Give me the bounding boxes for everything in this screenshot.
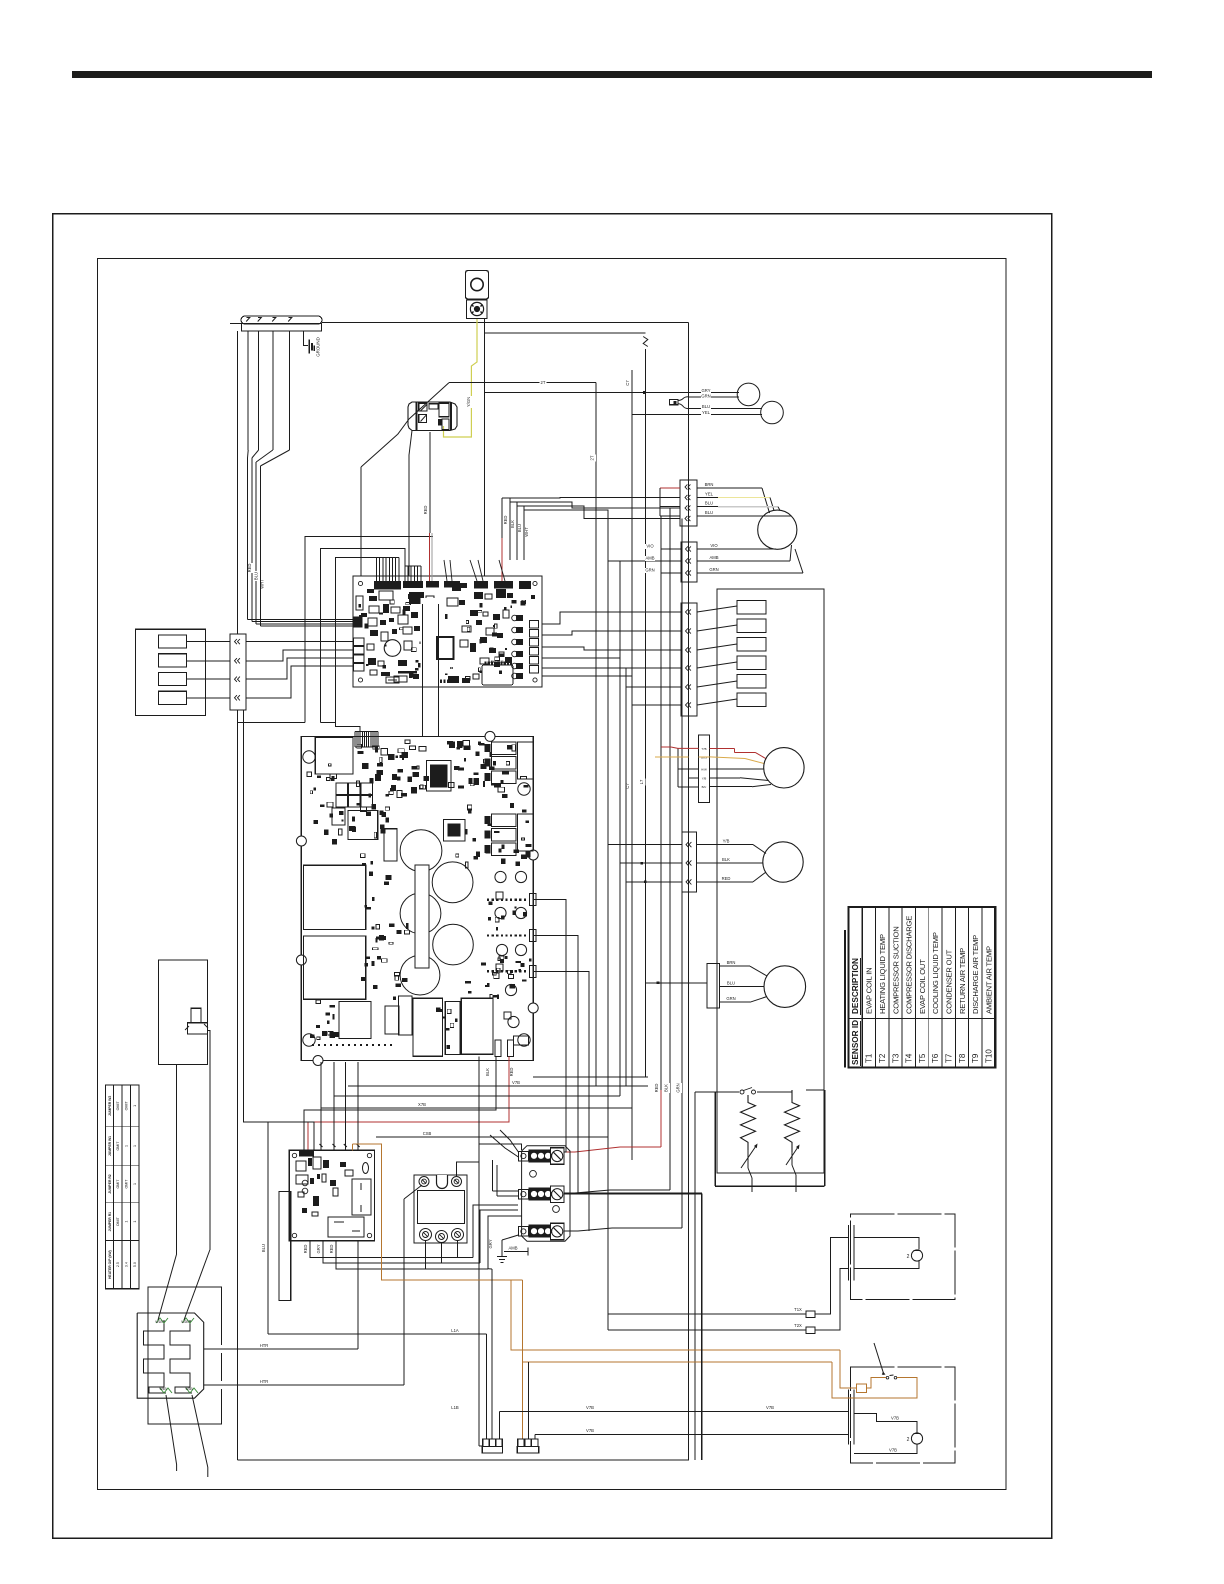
right mid circles [495,871,506,882]
svg-text:RED: RED [329,1245,334,1254]
svg-text:5.0: 5.0 [133,1262,137,1267]
heater resistor R2 [785,1090,800,1152]
solid state relay [414,1175,467,1243]
svg-text:H/W: H/W [701,767,707,771]
evap fan M3 [763,842,803,882]
board buzzer [384,640,401,657]
sensor plug [669,399,678,404]
wire heater feed [695,1091,715,1093]
svg-text:Y/GN: Y/GN [466,397,471,407]
probe [191,1008,201,1023]
trunk wire C7 [631,370,633,1160]
svg-text:V7B: V7B [891,1416,899,1421]
bottom power modules [339,1001,371,1038]
probe box [159,960,208,1065]
svg-text:RETURN AIR TEMP: RETURN AIR TEMP [958,948,967,1014]
svg-text:L1B: L1B [451,1405,459,1410]
svg-text:BLU: BLU [517,524,522,532]
relay board oval [363,1163,369,1174]
wire bus drop 1 to plug strip [237,331,239,634]
svg-text:JUMPER W2: JUMPER W2 [108,1096,112,1116]
trunk wire GRN [681,519,683,1229]
svg-text:DISCHARGE AIR TEMP: DISCHARGE AIR TEMP [971,935,980,1014]
wires top right to strips [502,497,680,500]
svg-text:BLU: BLU [705,501,713,506]
board mounting hole [303,751,315,763]
wire relay diagonal to 2T [409,383,449,419]
svg-text:RED: RED [247,564,252,573]
wire 2T trunk vertical [595,383,597,1087]
heater element outline [137,1313,204,1398]
relay panel box [717,589,824,1173]
ground near tb [501,1240,503,1256]
connector contact 4 [158,691,186,704]
wires fan plug to motor [710,768,764,770]
plug contact [235,658,237,663]
svg-text:BRN: BRN [705,482,714,487]
plug contact [235,639,237,644]
wires ssr bottom [425,1241,427,1269]
wire amb [533,1076,648,1078]
wire bus drop 4 [272,331,274,450]
bus terminal tick [258,318,262,322]
svg-text:VIO: VIO [710,543,718,548]
box1 connector [847,1225,849,1281]
svg-text:VIO: VIO [646,544,654,549]
amb wire [504,1251,528,1253]
svg-text:T7B: T7B [701,747,706,751]
labels bottom [450,1328,460,1333]
svg-text:OMIT: OMIT [124,1179,128,1189]
low voltage connector box [135,629,205,715]
heavy supply wire [564,1192,702,1194]
capacitor C5 [400,955,440,995]
outer border [53,214,1052,1539]
aux motor M4 [764,966,806,1008]
red sensor wire [660,1090,662,1147]
aux plug X5 [707,963,719,1008]
svg-text:GROUND: GROUND [316,337,321,357]
svg-text:T10: T10 [984,1049,993,1063]
plug contact [235,695,237,700]
terminal block TB3 [518,1227,528,1237]
svg-text:AMB: AMB [508,1246,517,1251]
svg-text:EVAP COIL IN: EVAP COIL IN [865,968,874,1014]
evap fan plug X4 [682,832,696,892]
wire yel [632,413,762,415]
capacitor C3 [400,893,441,934]
right relay footprints [492,742,517,755]
power board transformer [315,738,353,775]
box2 pressure switch [874,1343,884,1375]
svg-text:CSB: CSB [423,1131,432,1136]
svg-text:2T: 2T [541,380,546,385]
ribbon bracket 2 [320,549,405,723]
svg-text:AMB: AMB [709,555,718,560]
svg-text:T3: T3 [891,1053,900,1063]
bus terminal tick [272,318,276,322]
wires board bottom blk red [304,1057,496,1151]
svg-text:OMIT: OMIT [124,1101,128,1111]
compressor M1 [758,510,797,549]
svg-text:GRN: GRN [726,996,735,1001]
wire to sensor T10 [688,408,762,410]
svg-text:WHT: WHT [260,579,265,589]
power board U2 [301,736,533,1060]
wires board right to relay strip [542,612,681,624]
svg-text:X7B: X7B [418,1102,426,1107]
wires to evap fan plug [608,844,682,846]
svg-text:HTR: HTR [260,1379,269,1384]
orange wire to plug [522,1280,524,1439]
wires into tb left [500,1130,518,1152]
wire ssr left screw to heater [404,1185,422,1199]
terminal block TB2 [518,1190,528,1200]
board left connector strip [354,638,365,646]
board sd card [482,665,513,685]
svg-text:C7: C7 [625,380,630,386]
relay strip X2 [681,603,697,716]
driver ic [444,820,466,842]
wires runs up to terminals [473,1205,518,1258]
sensor T10 bulb [761,401,784,424]
high-pressure switch 2T body [466,271,489,300]
svg-text:GRY: GRY [702,388,711,393]
board ribbon header J1 [374,581,401,590]
svg-text:T2: T2 [878,1053,887,1063]
wires to box2 [499,1410,848,1412]
orange wire to fan plug [655,756,688,758]
orange control wire [353,1144,523,1280]
wires heater to relays [204,1348,358,1350]
red wire to compressor plug [660,487,680,489]
wires relay board bottom [310,1241,473,1258]
bus bar strip [415,865,429,968]
svg-text:JUMPER R2: JUMPER R2 [108,1174,112,1194]
tall cap rect [384,829,397,861]
wires heater bottom tails [166,1395,177,1471]
heatsink block 1 [304,865,366,929]
terminal mount plate [522,1146,570,1242]
board edge notches [296,836,306,846]
yellow earth wire Y/GN [444,319,478,438]
wires to box1 [608,1313,806,1315]
svg-text:T6: T6 [931,1053,940,1063]
board mounting hole [518,783,530,795]
svg-text:HEATER O/P (kW): HEATER O/P (kW) [108,1250,112,1279]
heater resistor R1 [741,1095,756,1150]
terminal block TB1 [518,1151,528,1161]
box2 fan motor [854,1413,917,1432]
wire bus drop 2 [247,331,249,450]
svg-text:V7B: V7B [766,1405,774,1410]
wire ssr right screw [457,1144,522,1176]
svg-text:RED: RED [423,506,428,515]
arrow R1 [741,1146,756,1168]
orange component [857,1384,867,1392]
capacitor C4 [433,924,474,965]
igbt module [430,765,448,788]
board right edge connector strip [530,621,539,629]
compressor plug bracket [659,488,661,516]
trunk wire C5 [645,349,647,1077]
board extra scatter [384,607,388,609]
box2 connector [847,1390,849,1445]
wires into relay board top [320,1062,322,1150]
svg-text:AMB: AMB [645,556,654,561]
relay board relay 1 [352,1179,371,1215]
wire 2T run [449,382,596,384]
svg-text:Y/B: Y/B [723,839,730,844]
svg-text:COMPRESSOR DISCHARGE: COMPRESSOR DISCHARGE [905,916,914,1014]
relay board relay 2 [328,1217,364,1237]
ribbon bracket 1 [238,722,305,724]
trunk wire [619,561,621,1096]
svg-text:RED: RED [509,1068,514,1077]
svg-text:JUMPER W1: JUMPER W1 [108,1136,112,1156]
board left edge connector [354,617,363,628]
svg-text:COMPRESSOR SUCTION: COMPRESSOR SUCTION [891,926,900,1014]
sensor id table [849,907,996,1068]
arrow R2 [786,1147,798,1165]
svg-text:COOLING LIQUID TEMP: COOLING LIQUID TEMP [931,932,940,1014]
jumper table [106,1085,139,1289]
svg-text:OMIT: OMIT [116,1216,120,1226]
svg-text:3.4: 3.4 [124,1262,128,1267]
board header J6 with red wire [494,581,513,589]
board scatter parts [381,749,387,755]
trunk wire [688,323,690,1461]
svg-text:GRY: GRY [488,1239,493,1248]
svg-text:WHT: WHT [524,527,529,537]
svg-text:SENSOR ID: SENSOR ID [851,1020,860,1065]
trunk wire BLK [669,508,671,1190]
svg-text:JUMPER R1: JUMPER R1 [108,1212,112,1232]
junction dot [643,391,646,394]
relay board parts [296,1161,306,1171]
svg-text:BLK: BLK [485,1068,490,1076]
table edge line [844,930,846,1068]
svg-text:T4: T4 [905,1053,914,1063]
board header J4 [444,581,460,588]
inner border [98,259,1007,1490]
svg-text:T1: T1 [865,1053,874,1063]
svg-text:GRN: GRN [645,568,654,573]
ssr bottom screws [420,1229,432,1241]
svg-text:YEL: YEL [702,410,711,415]
capacitor C1 [400,830,442,872]
board main IC [437,637,454,659]
heater enclosure box [148,1287,222,1424]
board bottom parts [440,680,442,683]
board right diode column [516,615,523,621]
svg-text:V7B: V7B [586,1428,594,1433]
wires probe box down [176,1065,178,1255]
svg-text:HEATING LIQUID TEMP: HEATING LIQUID TEMP [878,934,887,1014]
relay coils [737,601,766,615]
wires to plug 2 [661,548,681,550]
svg-text:RED: RED [654,1084,659,1093]
svg-text:YEL: YEL [705,492,714,497]
svg-text:T9: T9 [971,1053,980,1063]
wires connector to strip [186,641,230,643]
svg-text:T5: T5 [918,1053,927,1063]
svg-text:1: 1 [133,1145,137,1147]
board header J5 [474,581,488,589]
trunk wire from compressor plug [660,516,662,1090]
svg-text:W1B: W1B [155,1320,163,1324]
svg-text:W4B: W4B [159,1387,167,1391]
condensate box 1 [851,1214,955,1300]
orange branch 2 [523,1361,832,1363]
heater terminals [156,1318,168,1323]
connector contact 3 [158,672,186,685]
svg-text:RED: RED [503,516,508,525]
svg-text:GRN: GRN [676,1083,681,1092]
high-pressure switch coil [467,300,488,319]
disconnect relay block 1T [408,402,457,431]
svg-text:BLU: BLU [254,572,259,580]
bottom pin row [312,1044,314,1046]
trunk wire [607,510,609,1330]
wire probe output [208,1031,210,1250]
svg-text:T8: T8 [958,1053,967,1063]
svg-text:BLK: BLK [722,857,730,862]
plug strip X1 [230,634,246,710]
orange loop in box2 [840,1350,857,1388]
trunk wire [625,687,627,1086]
plug pigtail [678,397,688,401]
svg-text:B/U: B/U [702,785,707,789]
svg-text:OMIT: OMIT [116,1141,120,1151]
standoff bar [279,1192,291,1301]
svg-text:L7: L7 [639,779,644,784]
wire bus to trunk [322,322,689,324]
mains plug P1 [483,1439,489,1446]
svg-text:1: 1 [124,1221,128,1223]
power board transformer 2 [348,811,378,840]
compressor plug strip 2 [681,542,697,582]
relay board header [299,1150,314,1156]
svg-text:1: 1 [133,1221,137,1223]
wire switch to fuse run [485,319,646,334]
svg-text:2.5: 2.5 [116,1262,120,1267]
wire strip feed down [237,710,239,1460]
sensor T9 bulb [737,383,760,406]
svg-text:T7: T7 [945,1053,954,1063]
box1 pump motor [854,1238,919,1250]
svg-text:BLU: BLU [702,404,710,409]
bus terminal tick [246,318,250,322]
svg-text:V7B: V7B [512,1080,520,1085]
bus terminal tick [288,318,292,322]
wires board pass-through [421,598,441,686]
svg-text:1: 1 [133,1183,137,1185]
condensate box 2 [851,1367,955,1463]
svg-text:RED: RED [303,1245,308,1254]
wires into board top right [501,498,503,538]
svg-text:GRN: GRN [701,393,710,398]
wires heater top diagonals [158,1254,177,1320]
wires strip to coils [697,606,737,612]
compressor plug strip [680,480,697,526]
ground wire [303,331,307,346]
condenser fan M2 [764,748,804,788]
svg-text:CONDENSER OUT: CONDENSER OUT [945,949,954,1014]
wire bus drop 5 [289,331,291,450]
fan plug X3 [699,735,710,803]
svg-text:2: 2 [907,1437,910,1443]
wire V7B [348,1085,648,1087]
svg-text:OMIT: OMIT [116,1101,120,1111]
connector contact 1 [158,635,186,648]
wires to aux plug [646,982,708,984]
wires plug to compressor [697,487,762,489]
board components [369,596,377,601]
wires trunk to terminal blocks [620,1146,661,1148]
wires strip to control board [246,641,353,643]
orange branch 1 [511,1280,840,1350]
svg-text:L1A: L1A [451,1328,459,1333]
svg-text:GRY: GRY [316,1244,321,1253]
wires into plugs [486,1334,488,1439]
svg-text:1: 1 [124,1145,128,1147]
svg-text:BRN: BRN [727,960,736,965]
svg-text:BLK: BLK [664,1084,669,1092]
svg-text:2T: 2T [590,455,595,460]
svg-text:T2X: T2X [794,1323,802,1328]
svg-text:Y/B: Y/B [702,776,707,780]
board mounting hole [303,1034,315,1046]
wire blu [268,1122,314,1150]
svg-text:BLU: BLU [727,981,735,986]
svg-text:RED: RED [722,876,731,881]
rectifier cluster [336,783,348,795]
svg-text:OMIT: OMIT [116,1179,120,1189]
bottom trunk wire [238,1459,690,1461]
svg-text:EVAP COIL OUT: EVAP COIL OUT [918,959,927,1014]
svg-text:AMBIENT AIR TEMP: AMBIENT AIR TEMP [984,946,993,1014]
red wire to fan plug [661,746,671,748]
svg-text:V7B: V7B [889,1448,897,1453]
thermostat switch [740,1090,744,1094]
heatsink block 2 [304,936,366,999]
svg-text:BLU: BLU [261,1244,266,1252]
ssr screw right [452,1177,462,1187]
ssr screw left [419,1177,429,1187]
svg-text:DESCRIPTION: DESCRIPTION [851,958,860,1014]
svg-text:BLU: BLU [705,510,713,515]
heater relay board U3 [289,1150,374,1240]
wires board right exits [533,900,566,1152]
ssr window [418,1191,465,1224]
supply bus bar [241,316,322,324]
plug contact [235,677,237,682]
wire relay drop [409,431,412,456]
svg-text:W3B: W3B [185,1387,193,1391]
svg-text:T1X: T1X [794,1307,802,1312]
svg-text:BLK: BLK [510,520,515,528]
wire to sensor T9 [688,396,739,398]
ground symbol [308,340,310,354]
box2 internal wire labels [890,1416,900,1421]
wires plug2 to compressor [697,548,776,550]
svg-text:1: 1 [133,1105,137,1107]
crankcase heater box [714,1092,716,1186]
fuse on wire C5 [643,337,648,347]
connector contact 2 [158,654,186,667]
wire board bottom left [478,1057,480,1447]
